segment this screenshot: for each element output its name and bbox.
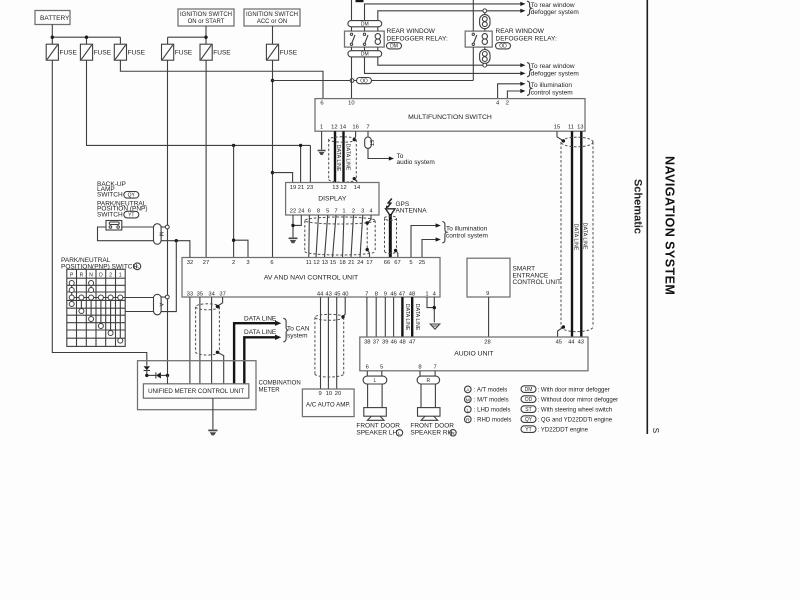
svg-text:: RHD models: : RHD models (474, 418, 512, 424)
fuse F4 (162, 44, 193, 60)
brace rear window bottom (527, 63, 531, 77)
svg-text:SWITCH: SWITCH (97, 192, 123, 199)
wire relay2 left contact bottom to OD line (472, 47, 474, 80)
svg-text:DM: DM (361, 52, 369, 58)
label to rear window defogger system bottom (531, 63, 579, 77)
svg-text:5: 5 (326, 209, 329, 215)
svg-text:DM: DM (525, 387, 533, 393)
svg-text:44: 44 (317, 291, 324, 297)
svg-text:12: 12 (340, 185, 346, 191)
connector oval below relay2 coil (480, 47, 490, 65)
svg-text:QY: QY (525, 417, 533, 423)
svg-text:To illumination: To illumination (531, 82, 573, 89)
svg-text:A: A (157, 303, 163, 307)
connector oval above relay2 coil (480, 13, 490, 32)
shield dot bottom (353, 177, 356, 180)
svg-text:BATTERY: BATTERY (40, 15, 70, 22)
svg-text:system: system (287, 333, 308, 340)
shield drain wire MFS16 to display14 (354, 131, 357, 182)
svg-text:REAR WINDOW: REAR WINDOW (387, 28, 436, 35)
open circle relay2 coil bottom on arrow3 line (483, 63, 487, 67)
svg-text:IGNITION SWITCH: IGNITION SWITCH (180, 12, 232, 18)
PNP switch table grid (67, 269, 125, 346)
svg-text:A/C AUTO AMP.: A/C AUTO AMP. (306, 402, 351, 409)
svg-text:14: 14 (340, 125, 347, 131)
svg-text:16: 16 (352, 125, 358, 131)
wire audio 8 to R connector (419, 371, 421, 376)
wire MFS pin2 to illumination arrow (507, 91, 520, 99)
PNP N contact (89, 295, 94, 322)
svg-text:DM: DM (361, 21, 369, 27)
diode D1 (144, 366, 150, 375)
wire A connector to M junction (161, 241, 176, 312)
data line thick MFS11 to audio 44 (571, 131, 573, 337)
connector M stadium (154, 224, 164, 245)
svg-text:45: 45 (334, 291, 340, 297)
wire to AV pins 2 and 3 (234, 145, 248, 257)
svg-text:5: 5 (380, 364, 383, 370)
wire display6 to AV11 (308, 215, 311, 258)
wire OD line relay2 contact to F6 (273, 80, 474, 82)
svg-text:FUSE: FUSE (128, 50, 146, 57)
svg-text:45: 45 (556, 339, 562, 345)
svg-text:To rear window: To rear window (531, 63, 575, 70)
display shield dot bottom (366, 248, 369, 251)
data line thick wire MFS14 to display12 (342, 131, 344, 182)
svg-text:YT: YT (128, 212, 134, 218)
svg-text:13: 13 (332, 185, 338, 191)
arrow to rear window defogger 1 (520, 2, 525, 6)
svg-text:6: 6 (270, 260, 273, 266)
wire branch to display pin 19 (273, 173, 293, 183)
svg-text:FUSE: FUSE (94, 50, 112, 57)
data line thick AV47 to audio 48 (401, 297, 403, 337)
wire PNP row2 to A connector (125, 311, 153, 313)
svg-text:37: 37 (219, 291, 225, 297)
GPS shield drain to AV67 (396, 250, 398, 257)
svg-text:IGNITION SWITCH: IGNITION SWITCH (246, 12, 298, 18)
svg-text:2: 2 (109, 272, 112, 278)
svg-text:defogger system: defogger system (531, 9, 579, 16)
junction battery bus 2 (85, 36, 88, 39)
svg-text:17: 17 (366, 260, 372, 266)
svg-text:ANTENNA: ANTENNA (396, 208, 428, 215)
wire MFS pin4 to illumination arrow (498, 84, 521, 99)
junction F6 OD branch (271, 79, 274, 82)
arrow to illumination 2 (520, 89, 525, 93)
wire AV7 to audio 38 (366, 297, 368, 337)
svg-text:10: 10 (326, 391, 332, 397)
svg-text:20: 20 (335, 391, 341, 397)
svg-text:7: 7 (365, 291, 368, 297)
svg-text:M: M (157, 232, 163, 237)
fuse F1 (46, 44, 77, 60)
svg-text:COMBINATION: COMBINATION (259, 381, 301, 387)
shield cylinder MFS to display (329, 137, 357, 182)
GPS antenna symbol (386, 209, 395, 216)
svg-text:S: S (651, 428, 660, 433)
svg-text:22: 22 (290, 209, 296, 215)
AC auto amp box (302, 389, 354, 417)
front door speaker RH label (410, 422, 456, 437)
AC shield dot (341, 315, 344, 318)
brace illumination top (527, 81, 531, 95)
wire ST to audio system arrow (368, 148, 389, 158)
svg-text:2: 2 (506, 100, 509, 106)
ground below MFS pin1 (318, 151, 326, 156)
junction M bottom (175, 239, 178, 242)
svg-text:FUSE: FUSE (280, 50, 298, 57)
wire display2 to AV21 (351, 215, 354, 258)
wire AV1 AV4 to ground (427, 297, 434, 322)
open circle A top on F4 wire (161, 295, 169, 299)
junction display ground (291, 224, 294, 227)
PNP 1 contact (118, 295, 123, 343)
svg-text:YT: YT (525, 427, 531, 433)
svg-text:32: 32 (187, 260, 193, 266)
svg-text:FUSE: FUSE (213, 50, 231, 57)
svg-text:25: 25 (419, 260, 425, 266)
svg-text:OD: OD (360, 78, 368, 84)
open circle relay2 coil top on arrow2 line (483, 9, 487, 13)
svg-text:2: 2 (232, 260, 235, 266)
legend circle A (465, 386, 508, 393)
svg-text:37: 37 (373, 339, 379, 345)
svg-text:46: 46 (391, 339, 397, 345)
legend circle L (465, 406, 511, 413)
svg-text:REAR WINDOW: REAR WINDOW (496, 28, 545, 35)
wire AV43 to AC amp 10 (327, 297, 329, 389)
wire audio 6 to L connector (366, 371, 368, 376)
wire AV9 to audio 39 (384, 297, 386, 337)
svg-text:: LHD models: : LHD models (474, 408, 511, 414)
svg-text:5: 5 (409, 260, 412, 266)
wire display3 to AV24 (360, 215, 363, 258)
svg-text:33: 33 (187, 291, 193, 297)
svg-text:: With door mirror defogger: : With door mirror defogger (538, 387, 610, 393)
park/neutral position PNP switch YT label (97, 200, 148, 218)
svg-text:To CAN: To CAN (287, 326, 310, 333)
AV and NAVI control unit U3 (182, 258, 440, 298)
junction AV pin2/3 branch (232, 239, 235, 242)
wire F6 down to AV pin 6 (272, 60, 274, 257)
svg-text:NAVIGATION SYSTEM: NAVIGATION SYSTEM (663, 156, 677, 295)
svg-text:R: R (466, 418, 470, 424)
arrow to rear window defogger 3 (520, 63, 525, 67)
wire AV pin5 to illumination arrow (411, 226, 436, 258)
junction battery bus 1 (51, 36, 54, 39)
back-up lamp switch label (97, 181, 139, 199)
svg-text:DM: DM (390, 44, 398, 50)
wire F2 to display pins 21 23 (87, 60, 311, 182)
shield drain AV40 (343, 297, 345, 317)
shield drain MFS15 to audio 45 (557, 131, 563, 337)
wire relay1 coil bottom to arrow3 (378, 47, 521, 65)
svg-text:7: 7 (433, 364, 436, 370)
svg-text:R: R (426, 378, 430, 384)
svg-text:47: 47 (399, 291, 405, 297)
arrow to illumination 4 (436, 237, 441, 241)
PNP D contact (98, 295, 103, 329)
svg-text:43: 43 (325, 291, 331, 297)
svg-text:FRONT DOOR: FRONT DOOR (356, 422, 400, 429)
shield dot top (353, 138, 356, 141)
svg-text:DATA LINE: DATA LINE (414, 304, 420, 331)
wire relay1 coil top to arrow2 (378, 11, 521, 31)
wire meter to ground (212, 398, 214, 429)
svg-text:N: N (89, 272, 93, 278)
multifunction switch U1 (315, 99, 585, 132)
svg-text:DATA LINE: DATA LINE (244, 329, 277, 336)
svg-text:9: 9 (486, 291, 489, 297)
svg-text:SWITCH: SWITCH (97, 211, 123, 218)
data line CAN 2 thick arrow (244, 329, 281, 384)
svg-text:1: 1 (425, 291, 428, 297)
svg-text:control system: control system (531, 89, 573, 96)
rear window defogger relay OD box (465, 31, 492, 47)
wire relay1 left contact to MFS pin 10 (351, 47, 353, 99)
svg-text:control system: control system (446, 233, 488, 240)
svg-text:ON or START: ON or START (188, 19, 225, 25)
junction diode left (145, 374, 148, 377)
shield drain AV37 to meter (217, 297, 223, 384)
svg-text:Schematic: Schematic (632, 179, 644, 234)
junction F6 display 19 branch (271, 171, 274, 174)
svg-text:R: R (80, 272, 84, 278)
svg-text:11: 11 (568, 125, 574, 131)
wire PNP common row to A connector (72, 297, 154, 299)
arrow to rear window defogger 4 (520, 71, 525, 75)
meter shield dot top (216, 305, 219, 308)
svg-text:SPEAKER LH: SPEAKER LH (356, 430, 397, 437)
svg-text:D: D (99, 272, 103, 278)
legend QY (521, 416, 613, 424)
svg-text:R: R (451, 431, 455, 437)
svg-text:40: 40 (342, 291, 348, 297)
wire F4 into meter (167, 375, 169, 383)
connector open circle on OD line (350, 79, 354, 83)
svg-text:audio system: audio system (397, 159, 435, 166)
svg-text:67: 67 (394, 260, 400, 266)
svg-text:OD: OD (525, 397, 533, 403)
page divider line (646, 0, 648, 434)
right shield dot top (562, 139, 565, 142)
svg-text:DEFOGGER RELAY:: DEFOGGER RELAY: (496, 36, 557, 43)
svg-text:1: 1 (119, 272, 122, 278)
legend circle M (465, 396, 509, 403)
svg-text:DATA LINE: DATA LINE (572, 224, 578, 251)
wire F1 rail to combination meter (52, 60, 147, 366)
wire smart entrance 9 to audio 28 (488, 297, 490, 337)
wire display7 to AV15 (333, 215, 337, 258)
wire audio 5 to L connector (381, 371, 383, 376)
arrow to audio system (389, 156, 394, 160)
meter shield dot bottom (216, 351, 219, 354)
label to illumination control system top (531, 82, 573, 96)
junction F2 line to display pin21 (299, 144, 302, 147)
svg-text:To rear window: To rear window (531, 2, 575, 9)
fuse F3 (114, 44, 145, 60)
svg-text:DATA LINE: DATA LINE (244, 315, 277, 322)
right shield dot bottom (562, 325, 565, 328)
svg-text:47: 47 (409, 339, 415, 345)
GPS shield dot (394, 249, 397, 252)
svg-text:21: 21 (298, 185, 304, 191)
svg-text:12: 12 (331, 125, 337, 131)
ground below display (289, 238, 298, 243)
fuse F5 (200, 44, 231, 60)
svg-text:: Without door mirror defogger: : Without door mirror defogger (538, 397, 619, 403)
wire relay1 middle contact bottom to arrow4 (365, 47, 521, 73)
connector L stadium (363, 376, 387, 384)
svg-text:13: 13 (322, 260, 328, 266)
PNP switch contacts column N top (89, 281, 94, 293)
svg-text:DISPLAY: DISPLAY (318, 196, 347, 203)
svg-text:38: 38 (364, 339, 370, 345)
svg-text:6: 6 (308, 209, 311, 215)
svg-text:11: 11 (306, 260, 312, 266)
svg-text:15: 15 (554, 125, 560, 131)
smart entrance label (513, 266, 562, 286)
PNP switch contacts column P (69, 281, 74, 307)
connector OD stadium (357, 78, 372, 85)
legend ST (521, 406, 612, 414)
front door speaker RH (418, 408, 441, 421)
display unit U2 (286, 183, 379, 216)
svg-text:12: 12 (313, 260, 319, 266)
back-up lamp switch S1 (106, 221, 122, 231)
svg-text:DATA LINE: DATA LINE (404, 304, 410, 331)
wire AV44 to AC amp 9 (320, 297, 322, 389)
wire F3 to multifunction switch pin 6 (120, 60, 323, 98)
svg-text:DATA LINE: DATA LINE (335, 145, 341, 172)
wire battery to fuses bus (52, 25, 120, 45)
svg-text:: M/T models: : M/T models (474, 398, 509, 404)
relay1 label (387, 28, 448, 50)
svg-text:ACC or ON: ACC or ON (257, 19, 287, 25)
battery (35, 11, 70, 25)
svg-text:QY: QY (128, 193, 136, 199)
junction AV1/4 (433, 306, 436, 309)
svg-text:METER: METER (259, 387, 281, 393)
junction diode right (166, 374, 169, 377)
PNP 2 contact (108, 295, 113, 336)
legend DM (521, 386, 610, 394)
ground below meter (208, 430, 217, 435)
svg-text:ST: ST (368, 140, 374, 146)
svg-text:1: 1 (342, 209, 345, 215)
svg-text:UNIFIED METER CONTROL UNIT: UNIFIED METER CONTROL UNIT (148, 388, 244, 395)
wire ignition ON to fuses (168, 26, 206, 44)
svg-text:44: 44 (568, 339, 575, 345)
fuse F2 (80, 44, 111, 60)
audio unit box (360, 337, 588, 371)
wire AV8 to audio 37 (375, 297, 377, 337)
shield cylinder right data bus (561, 137, 593, 331)
ignition switch ON or START (178, 9, 234, 26)
relay2 label (496, 28, 557, 50)
label to rear window defogger system top (531, 2, 579, 16)
svg-text:48: 48 (409, 291, 415, 297)
wire relay2 left contact top (472, 0, 474, 31)
svg-text:46: 46 (390, 291, 396, 297)
wire display1 to AV18 (343, 215, 345, 258)
wire M bottom to AV pin 32 (161, 241, 190, 258)
brace illumination AV (442, 222, 446, 243)
svg-text:: QG and YD22DDTi engine: : QG and YD22DDTi engine (538, 417, 613, 423)
svg-text:L: L (466, 408, 469, 414)
combination meter box (138, 361, 301, 410)
svg-text:66: 66 (384, 260, 390, 266)
svg-text:13: 13 (577, 125, 583, 131)
ground AV1/4 (430, 324, 440, 329)
svg-text:To illumination: To illumination (446, 225, 488, 232)
wires L connector to speaker (368, 384, 383, 408)
shield cylinder AV44-45 to AC amp (315, 314, 344, 377)
svg-text:SPEAKER RH: SPEAKER RH (410, 430, 452, 437)
svg-text:: A/T models: : A/T models (474, 388, 508, 394)
svg-text:1: 1 (320, 125, 323, 131)
wire F5 to AV pin 27 (205, 60, 207, 257)
connector R stadium (417, 376, 440, 384)
wire AV45 to AC amp 20 (336, 297, 338, 389)
svg-text:ST: ST (525, 407, 531, 413)
shield cylinder AV33-37 (196, 304, 220, 355)
svg-text:18: 18 (339, 260, 345, 266)
svg-text:19: 19 (290, 185, 296, 191)
svg-text:39: 39 (382, 339, 388, 345)
svg-text:MULTIFUNCTION SWITCH: MULTIFUNCTION SWITCH (408, 114, 492, 121)
wire relay1 left contact top (351, 0, 353, 31)
data line thick wire MFS12 to display13 (334, 131, 336, 182)
wire AV34 to meter (211, 297, 213, 384)
svg-text:7: 7 (334, 209, 337, 215)
data line thick AV48 to audio 47 (411, 297, 413, 337)
relay1 DM stadium bottom (348, 51, 382, 58)
svg-text:2: 2 (352, 209, 355, 215)
svg-text:8: 8 (317, 209, 320, 215)
svg-text:15: 15 (330, 260, 336, 266)
arrow to illumination 3 (436, 223, 441, 227)
relay1 DM stadium top (348, 21, 382, 28)
wire F4 down to meter (167, 60, 169, 375)
legend circle R (465, 416, 512, 423)
svg-text:24: 24 (357, 260, 364, 266)
svg-text:28: 28 (484, 339, 490, 345)
rear window defogger relay DM box (345, 31, 385, 47)
svg-text:AV AND NAVI CONTROL UNIT: AV AND NAVI CONTROL UNIT (264, 275, 358, 282)
data line CAN 1 thick arrow (234, 315, 281, 384)
svg-text:defogger system: defogger system (531, 71, 579, 78)
svg-text:14: 14 (354, 185, 361, 191)
unified meter control unit box (143, 384, 248, 398)
label to CAN system (287, 326, 310, 340)
wire ignition ACC to fuse (272, 26, 274, 44)
wires R connector to speaker (421, 384, 435, 408)
svg-text:9: 9 (384, 291, 387, 297)
svg-text:3: 3 (246, 260, 249, 266)
svg-text:23: 23 (307, 185, 313, 191)
label to illumination control system AV (446, 225, 488, 239)
svg-text:CONTROL UNIT: CONTROL UNIT (513, 279, 562, 286)
wire display5 to AV13 (325, 215, 328, 258)
svg-text:9: 9 (318, 391, 321, 397)
junction F2 line to AV pin2 (232, 144, 235, 147)
svg-text:DATA LINE: DATA LINE (345, 144, 351, 171)
brace rear window top (527, 1, 531, 15)
cut wire stub top (356, 0, 364, 2)
svg-text:DEFOGGER RELAY:: DEFOGGER RELAY: (387, 36, 448, 43)
